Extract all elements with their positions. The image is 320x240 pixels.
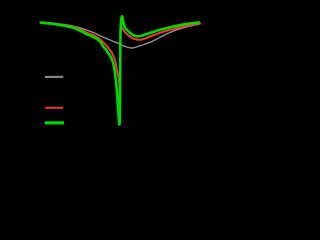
legend red line (45, 107, 63, 109)
gray curve (broad resonance) (40, 22, 200, 48)
legend green line (45, 121, 64, 124)
chart canvas (0, 0, 208, 162)
red curve (medium resonance) (41, 23, 200, 99)
legend gray line (45, 76, 63, 78)
green curve (sharp resonance) (41, 16, 199, 124)
